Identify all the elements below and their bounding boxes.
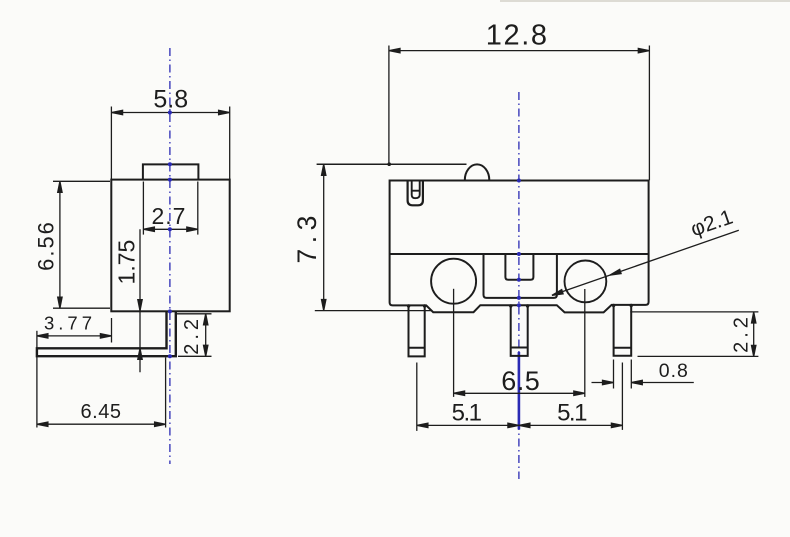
dimension 6.56 [33, 181, 110, 308]
dimension 0.8 [592, 360, 694, 389]
svg-text:6.5: 6.5 [501, 366, 540, 396]
svg-text:7.3: 7.3 [292, 210, 322, 263]
lever arm line (right view) [317, 163, 467, 165]
plunger guide notch (front view) [505, 254, 533, 280]
dimension 6.45 [37, 358, 166, 428]
svg-text:5.1: 5.1 [452, 399, 482, 426]
plunger button (left view) [143, 164, 199, 179]
left mounting hole [431, 259, 476, 304]
switch body (left side view) [111, 180, 229, 312]
svg-text:5.8: 5.8 [153, 85, 188, 113]
black junction dots [387, 162, 633, 307]
dimension 5.8 [111, 85, 229, 179]
svg-text:3.77: 3.77 [44, 313, 96, 334]
dimension 2.7 [143, 182, 197, 235]
svg-text:2.7: 2.7 [152, 203, 187, 229]
center terminal pin (front view) [511, 305, 528, 356]
svg-text:1.75: 1.75 [114, 240, 140, 285]
right terminal pin (front view) [614, 305, 632, 356]
left terminal pin (front view) [409, 305, 425, 356]
svg-text:2.2: 2.2 [181, 315, 203, 355]
center pocket (front view) [484, 254, 557, 298]
svg-text:12.8: 12.8 [486, 19, 549, 51]
terminal pin and bent L bracket (left view) [37, 312, 176, 357]
dimension 2.2 (right view pin length) [630, 312, 758, 357]
dimension 1.75 [114, 229, 143, 372]
centerline right view [518, 92, 520, 479]
dimension 12.8 [389, 19, 650, 180]
dimension 7.3 [292, 164, 431, 310]
svg-text:2.2: 2.2 [731, 313, 753, 353]
dimension 6.5 [454, 289, 585, 397]
base separation line (front view) [390, 253, 649, 255]
latch detail (front view top-left) [408, 181, 423, 206]
dimension 5.1 left [417, 363, 519, 431]
dimension 3.77 [37, 313, 112, 428]
svg-text:6.45: 6.45 [81, 401, 122, 423]
blue centerline junction dots [168, 111, 521, 359]
dome bump on lever [465, 164, 490, 180]
right mounting hole [565, 261, 607, 303]
switch body (front view) [390, 181, 649, 313]
svg-text:0.8: 0.8 [659, 360, 689, 382]
leader phi 2.1 [552, 205, 739, 295]
dimension 2.2 (left view pin length) [177, 314, 212, 357]
centerline left view [169, 48, 171, 464]
dimension 5.1 right [519, 363, 623, 430]
svg-text:5.1: 5.1 [557, 399, 587, 426]
svg-text:6.56: 6.56 [33, 220, 58, 271]
